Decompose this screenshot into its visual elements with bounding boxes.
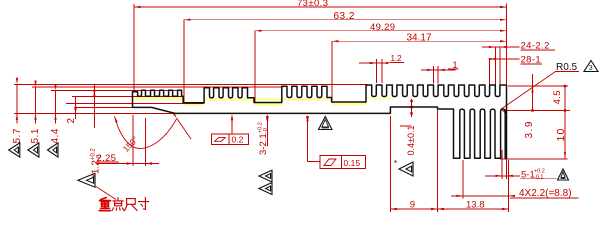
right extension lines: [508, 85, 568, 87]
svg-text:0.4±0.1: 0.4±0.1: [406, 126, 416, 156]
flag triangle (lip): [78, 173, 95, 187]
svg-text:13.8: 13.8: [466, 199, 485, 210]
svg-text:-0: -0: [263, 128, 269, 133]
svg-text:5.1: 5.1: [30, 128, 41, 143]
dim 3-2.1+0.2/-0: [266, 116, 268, 147]
dim 24-2.2: [494, 47, 496, 85]
dim 2: [75, 97, 77, 119]
svg-text:9: 9: [410, 200, 415, 211]
svg-text:0.2: 0.2: [232, 135, 244, 145]
svg-text:5.7: 5.7: [12, 128, 23, 143]
heatsink profile outline: [133, 85, 507, 158]
note 重点尺寸 (drawn as vector strokes): [99, 198, 110, 211]
flag triangle mid: [319, 117, 333, 130]
dim 49.29: [254, 31, 256, 102]
dim 0.4±0.1: [411, 99, 413, 117]
dim 4.5 / 10: [564, 86, 566, 159]
svg-text:49.29: 49.29: [370, 22, 395, 33]
svg-text:-0.1: -0.1: [534, 175, 543, 181]
svg-text:3: 3: [589, 65, 593, 72]
svg-text:73±0.3: 73±0.3: [297, 0, 328, 9]
parallelism frame 0.15: [320, 156, 366, 169]
dim 1: [433, 66, 435, 84]
svg-text:4.5: 4.5: [552, 90, 563, 104]
dim 63.2: [183, 20, 185, 103]
svg-text:3.9: 3.9: [524, 120, 535, 138]
dim 13.8: [438, 208, 509, 210]
dim 4.4: [55, 91, 57, 124]
svg-text:2.25: 2.25: [97, 153, 117, 164]
yellow highlight bands: [134, 97, 393, 106]
dim 2.25: [132, 115, 134, 166]
dim 150deg: [115, 116, 177, 148]
dim 3.9: [532, 74, 534, 111]
svg-text:3-2.1: 3-2.1: [258, 133, 269, 155]
svg-text:0.15: 0.15: [344, 158, 361, 168]
dim 34.17: [331, 41, 333, 102]
dim 5.7: [16, 84, 18, 123]
svg-text:63.2: 63.2: [334, 11, 355, 22]
dim 73±0.3: [133, 4, 135, 91]
dim 1.2: [375, 59, 377, 83]
note 重点尺寸 leader: [96, 187, 116, 200]
svg-text:34.17: 34.17: [407, 32, 432, 43]
svg-text:4.4: 4.4: [50, 128, 61, 143]
datum triangles left: [9, 143, 20, 157]
svg-text:*: *: [394, 159, 397, 168]
svg-text:10: 10: [555, 127, 567, 141]
dim 5.1: [35, 87, 37, 124]
dim 5-1+0.2/-0.1: [501, 150, 503, 179]
left extension lines: [14, 83, 368, 85]
flag triangles pair: [259, 170, 272, 182]
svg-text:2: 2: [66, 118, 77, 124]
parallelism frame 0.2: [212, 134, 249, 145]
flag triangle 5-1: [558, 169, 569, 180]
svg-text:1.2: 1.2: [391, 54, 403, 63]
dim *1.2+0.2/-0: [93, 85, 95, 128]
svg-text:1: 1: [453, 60, 458, 70]
dim 9: [389, 116, 391, 212]
dim 28-1: [489, 59, 491, 85]
dim 4X2.2(=8.8): [462, 160, 464, 199]
